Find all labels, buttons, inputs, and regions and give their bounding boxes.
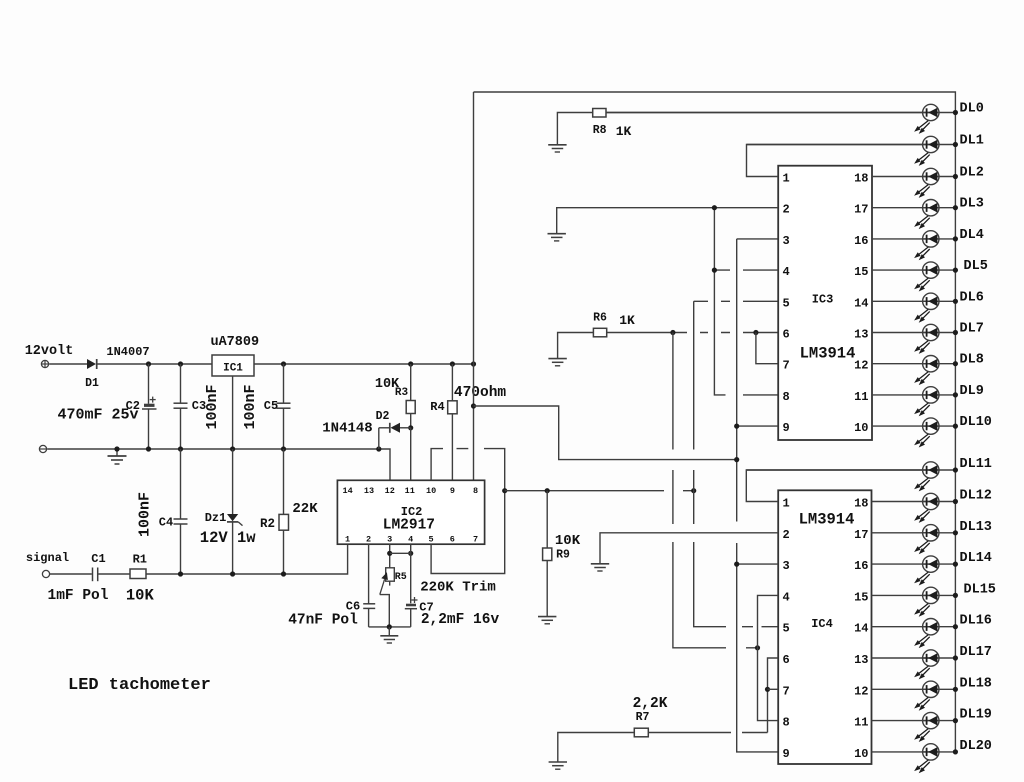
trimmer R5 220K body (386, 568, 395, 581)
capacitor C7 2,2mF 16v (electrolytic) (405, 605, 417, 627)
node DL18 column (953, 687, 958, 692)
LED DL3 (914, 200, 940, 230)
wire IC1 output rail (254, 363, 474, 365)
svg-text:DL7: DL7 (960, 322, 984, 337)
wire DL9 row (872, 394, 955, 396)
wire DL19 row (872, 720, 956, 722)
LED DL20 (914, 744, 940, 774)
node DL14 column (953, 562, 958, 567)
node DL10 column (953, 424, 958, 429)
resistor R8 1K (593, 109, 606, 118)
IC U3 LM3914 body (778, 166, 872, 440)
svg-text:10: 10 (854, 747, 868, 761)
svg-text:DL5: DL5 (964, 259, 988, 274)
LED DL16 (914, 619, 940, 649)
svg-text:DL6: DL6 (960, 290, 984, 305)
svg-text:17: 17 (854, 528, 868, 542)
capacitor C5 100nF (277, 364, 291, 449)
svg-text:470ohm: 470ohm (454, 385, 507, 401)
wire IC4 pin3 stub (737, 563, 779, 565)
node C2 bottom (146, 446, 151, 451)
wire DL15 row (872, 594, 956, 596)
svg-text:47nF Pol: 47nF Pol (288, 613, 358, 629)
resistor R9 10K (543, 491, 552, 617)
trimmer R5 wiper arrow (380, 572, 388, 594)
LED DL10 (914, 418, 940, 448)
svg-text:1: 1 (783, 497, 790, 511)
wire IC2 pin10 to pin5 net (431, 449, 505, 574)
wire R1 to IC2 pin1 (146, 544, 348, 574)
svg-text:22K: 22K (292, 501, 318, 517)
node R6-net to IC4 pins4/8 (755, 645, 760, 650)
node +9V rail junction (471, 361, 476, 366)
svg-text:R9: R9 (556, 549, 570, 562)
svg-text:DL20: DL20 (960, 739, 992, 754)
LED DL0 (914, 104, 940, 134)
svg-text:9: 9 (450, 486, 455, 496)
node IC3 pin6/pin7 link (753, 330, 758, 335)
wire DL17 row (872, 657, 956, 659)
LED DL8 (914, 356, 940, 386)
capacitor C6 47nF Pol (363, 604, 375, 627)
node C5 top (281, 361, 286, 366)
svg-text:220K Trim: 220K Trim (420, 580, 496, 596)
svg-text:3: 3 (783, 559, 790, 573)
node IC1/DZ1 rail (230, 446, 235, 451)
svg-text:DL4: DL4 (960, 228, 984, 243)
ground below IC2 (380, 627, 398, 643)
svg-text:LED tachometer: LED tachometer (68, 676, 211, 695)
svg-text:6: 6 (783, 653, 790, 667)
svg-text:18: 18 (854, 172, 868, 186)
IC U4 LM3914 body (778, 490, 871, 764)
svg-text:R3: R3 (395, 387, 409, 399)
svg-text:R5: R5 (395, 572, 407, 583)
svg-text:2,2K: 2,2K (633, 696, 668, 712)
node DL19 column (953, 718, 958, 723)
wire DL13 row (872, 532, 956, 534)
node DL17 column (953, 655, 958, 660)
node R9 line end on IC3 pin5 net (691, 488, 696, 493)
svg-text:13: 13 (854, 328, 868, 342)
wire R6 to IC3 pin6 (607, 332, 779, 334)
svg-text:12volt: 12volt (25, 344, 74, 359)
svg-text:16: 16 (854, 559, 868, 573)
wire IC4 pins4-8 link (758, 595, 779, 720)
node C4 signal (178, 571, 183, 576)
svg-text:17: 17 (854, 203, 868, 217)
node R9 top (545, 488, 550, 493)
LED DL2 (914, 168, 940, 198)
wire R8 ground branch (557, 113, 592, 145)
ground R6 (548, 359, 566, 366)
node DL0 column (953, 110, 958, 115)
terminal ground input (-) (39, 445, 46, 452)
ground main rail (108, 449, 127, 464)
wire DL12 row (872, 501, 956, 503)
wire DL3 row (872, 207, 955, 209)
svg-text:12: 12 (385, 486, 395, 496)
node DL1 column (953, 142, 958, 147)
node DL5 column (953, 268, 958, 273)
LED DL18 (914, 681, 940, 711)
svg-text:IC4: IC4 (811, 617, 833, 631)
LED DL5 (914, 262, 940, 292)
svg-text:12V 1w: 12V 1w (200, 529, 257, 547)
svg-text:uA7809: uA7809 (210, 335, 259, 350)
ground R8 (548, 145, 566, 152)
node DL13 column (953, 530, 958, 535)
wire DL14 row (872, 563, 956, 565)
svg-text:11: 11 (854, 390, 868, 404)
svg-text:3: 3 (783, 234, 790, 248)
terminal signal input (42, 570, 49, 577)
resistor R3 10K (406, 364, 415, 428)
wire D2 node to IC2 pin11 (410, 428, 412, 481)
node DL11 column (953, 467, 958, 472)
svg-text:DL16: DL16 (960, 614, 992, 629)
wire DL6 row (872, 300, 955, 302)
svg-text:1: 1 (783, 172, 790, 186)
svg-text:DL1: DL1 (960, 134, 984, 149)
wire DL8 row (872, 363, 955, 365)
wire DL5 row (872, 269, 955, 271)
node C3/C4 rail (178, 446, 183, 451)
wire R6 ground branch (558, 333, 594, 359)
wire ground rail (47, 449, 390, 480)
svg-text:IC3: IC3 (812, 293, 834, 307)
node IC3 pin4 bus (712, 268, 717, 273)
svg-text:LM2917: LM2917 (383, 518, 435, 534)
svg-text:DL12: DL12 (960, 489, 992, 504)
svg-text:DL9: DL9 (960, 384, 984, 399)
node 470ohm net end (734, 457, 739, 462)
svg-text:5: 5 (429, 535, 434, 545)
svg-text:9: 9 (783, 747, 790, 761)
svg-text:2: 2 (783, 203, 790, 217)
wire input to D1 anode (49, 363, 87, 365)
ground IC3 pin2 (548, 234, 566, 241)
svg-text:11: 11 (854, 716, 868, 730)
node pin10 net / R9 line (502, 488, 507, 493)
wire DL1 row (747, 144, 956, 146)
node DL16 column (953, 624, 958, 629)
ground R9 (538, 617, 556, 624)
wire R8 to LED DL0 (606, 112, 923, 114)
svg-text:R8: R8 (593, 124, 607, 137)
svg-text:1K: 1K (616, 124, 632, 139)
wire IC2 pin2 to C6 (368, 544, 370, 604)
svg-text:C5: C5 (264, 399, 278, 413)
svg-text:8: 8 (783, 716, 790, 730)
svg-text:1: 1 (345, 535, 350, 545)
svg-text:R4: R4 (430, 400, 444, 414)
LED DL11 (914, 462, 940, 492)
svg-text:D1: D1 (85, 377, 99, 390)
node Dz1 signal (230, 571, 235, 576)
wire top LED supply rail (474, 92, 956, 752)
wire R7 to IC4 pin 6/7 net (648, 732, 767, 734)
svg-text:7: 7 (783, 684, 790, 698)
wire IC4 pin1 hook to DL11 (746, 470, 922, 502)
node R6 net tap (670, 330, 675, 335)
svg-text:DL14: DL14 (960, 551, 992, 566)
node D2 branch (376, 446, 381, 451)
wire DL18 row (872, 688, 956, 690)
node R2 signal (281, 571, 286, 576)
node DL7 column (953, 330, 958, 335)
svg-text:13: 13 (364, 486, 374, 496)
svg-text:2: 2 (783, 528, 790, 542)
wire IC4 pin7 stub (768, 688, 779, 690)
node 470ohm net tap (471, 403, 476, 408)
svg-text:DL0: DL0 (960, 102, 984, 117)
wire IC3 pin1 hook to DL1 (747, 145, 923, 177)
wire IC1 ground pin to rail (232, 376, 234, 449)
svg-text:DL17: DL17 (960, 645, 992, 660)
resistor R1 10K (130, 569, 146, 579)
wire bus IC3-pin5 net vertical (694, 301, 779, 626)
svg-text:DL8: DL8 (960, 353, 984, 368)
svg-text:15: 15 (854, 265, 868, 279)
node pin3/pin4 link west (387, 551, 392, 556)
node C5/R2 rail (281, 446, 286, 451)
wire signal to C1 (50, 573, 92, 575)
LED DL12 (914, 493, 940, 523)
svg-text:IC1: IC1 (223, 363, 243, 375)
node DL12 column (953, 499, 958, 504)
svg-text:100nF: 100nF (137, 492, 154, 537)
node IC4 pin7 link (765, 687, 770, 692)
svg-text:LM3914: LM3914 (799, 511, 855, 529)
svg-text:12: 12 (854, 684, 868, 698)
svg-text:10: 10 (854, 421, 868, 435)
resistor R6 1K (593, 328, 606, 337)
capacitor C1 1mF Pol (93, 568, 98, 582)
wire bus IC3-pin3 net vertical (737, 239, 779, 752)
svg-text:DL2: DL2 (960, 166, 984, 181)
wire R5 wiper to ground rail (380, 595, 390, 627)
svg-text:1N4148: 1N4148 (322, 421, 372, 437)
node R4 top (450, 361, 455, 366)
svg-text:4: 4 (783, 590, 790, 604)
capacitor C4 100nF (174, 449, 188, 574)
svg-text:C4: C4 (159, 516, 173, 530)
svg-text:R6: R6 (593, 312, 607, 325)
node IC3 pin2 bus (712, 205, 717, 210)
diode D1 1N4007 (87, 359, 97, 369)
wire C6-R5-C7 ground rail (369, 626, 411, 628)
node R3/D2/pin11 (408, 425, 413, 430)
terminal 12volt input (+) (41, 360, 48, 367)
node DL4 column (953, 236, 958, 241)
svg-text:C6: C6 (346, 600, 360, 614)
svg-text:13: 13 (854, 653, 868, 667)
svg-text:5: 5 (783, 296, 790, 310)
LED DL1 (914, 136, 940, 166)
svg-text:6: 6 (450, 535, 455, 545)
capacitor C3 100nF (174, 364, 188, 449)
svg-text:C1: C1 (91, 552, 105, 566)
svg-text:Dz1: Dz1 (205, 511, 227, 525)
svg-text:R7: R7 (636, 711, 650, 724)
wire +9V vertical to IC2 pin8 (473, 92, 475, 480)
wire IC2 pin3 down (389, 544, 391, 568)
svg-text:9: 9 (783, 421, 790, 435)
wire DL10 row (872, 425, 955, 427)
wire DL0 row (606, 112, 955, 114)
wire DL2 row (872, 176, 955, 178)
svg-text:R1: R1 (133, 553, 147, 567)
svg-text:100nF: 100nF (242, 384, 259, 429)
node IC3 pin9 bus (734, 424, 739, 429)
svg-text:DL3: DL3 (960, 197, 984, 212)
wire C1 to R1 (98, 573, 130, 575)
ground R7 (549, 762, 567, 769)
wire DL20 row (872, 751, 956, 753)
LED DL4 (914, 231, 940, 261)
wire IC4 pin2 to ground (600, 533, 778, 564)
capacitor C2 470mF 25v (electrolytic) (142, 364, 157, 449)
wire DL16 row (872, 626, 956, 628)
wire pin3-pin4 link (390, 552, 411, 554)
svg-text:3: 3 (387, 535, 392, 545)
op-amp/converter IC2 LM2917 body (337, 480, 484, 544)
svg-text:DL10: DL10 (960, 415, 992, 430)
resistor R4 470ohm (448, 364, 457, 480)
svg-text:18: 18 (854, 497, 868, 511)
wire IC3 pin4 stub (714, 269, 778, 271)
wire IC3 pin6-pin7 link (756, 333, 778, 364)
wire IC2 pin4 to C7 (410, 544, 412, 603)
svg-text:DL11: DL11 (960, 457, 992, 472)
svg-text:DL15: DL15 (964, 582, 996, 597)
svg-text:10K: 10K (126, 587, 155, 605)
svg-text:16: 16 (854, 234, 868, 248)
LED DL14 (914, 556, 940, 586)
svg-text:14: 14 (854, 622, 868, 636)
svg-text:14: 14 (342, 486, 352, 496)
node DL6 column (953, 299, 958, 304)
svg-text:DL13: DL13 (960, 520, 992, 535)
svg-text:4: 4 (783, 265, 790, 279)
wire D1 cathode to IC1 input (97, 363, 212, 365)
svg-text:1K: 1K (619, 313, 635, 328)
diode D2 1N4148 (379, 423, 411, 449)
svg-text:11: 11 (405, 486, 415, 496)
node ground rail below IC2 (387, 624, 392, 629)
svg-text:7: 7 (783, 359, 790, 373)
svg-text:470mF 25v: 470mF 25v (57, 407, 138, 424)
svg-text:10K: 10K (555, 533, 581, 549)
wire IC3 pin2 to ground (557, 208, 779, 234)
svg-text:LM3914: LM3914 (800, 345, 856, 363)
svg-text:1mF Pol: 1mF Pol (48, 588, 109, 604)
LED DL6 (914, 293, 940, 323)
node C2 top (146, 361, 151, 366)
wire IC4 pin6-pin7-R7 link (768, 658, 779, 733)
svg-text:D2: D2 (376, 410, 390, 423)
wire DL4 row (872, 238, 955, 240)
node DL2 column (953, 174, 958, 179)
wire DL11 row (746, 469, 955, 471)
svg-text:4: 4 (408, 535, 413, 545)
node R3 top (408, 361, 413, 366)
svg-text:10: 10 (426, 486, 436, 496)
node DL3 column (953, 205, 958, 210)
wire R9 line (pin5/10 net east) (505, 490, 694, 492)
svg-text:signal: signal (26, 551, 69, 565)
wire IC3 pin9 stub (737, 425, 779, 427)
svg-text:100nF: 100nF (204, 384, 221, 429)
regulator IC1 uA7809 (212, 355, 254, 376)
node DL8 column (953, 361, 958, 366)
LED DL15 (914, 587, 940, 617)
wire DL7 row (872, 332, 955, 334)
svg-text:DL19: DL19 (960, 708, 992, 723)
svg-text:12: 12 (854, 359, 868, 373)
LED DL7 (914, 324, 940, 354)
LED DL17 (914, 650, 940, 680)
resistor R7 2,2K (634, 728, 648, 737)
svg-text:DL18: DL18 (960, 676, 992, 691)
label C2 plus (150, 397, 156, 403)
LED DL19 (914, 712, 940, 742)
LED DL13 (914, 525, 940, 555)
zener diode Dz1 12V 1w (227, 449, 243, 574)
node ground stem (114, 446, 119, 451)
svg-text:8: 8 (783, 390, 790, 404)
svg-text:R2: R2 (260, 517, 275, 531)
svg-text:14: 14 (854, 296, 868, 310)
node DL15 column (953, 593, 958, 598)
svg-text:8: 8 (473, 486, 478, 496)
wire bus R6-net vertical (673, 333, 758, 648)
resistor R2 22K (279, 449, 289, 574)
node pin3/pin4 link east (408, 551, 413, 556)
svg-text:15: 15 (854, 590, 868, 604)
svg-text:1N4007: 1N4007 (106, 345, 149, 359)
svg-text:7: 7 (473, 535, 478, 545)
label C7 plus (412, 597, 418, 603)
svg-text:5: 5 (783, 622, 790, 636)
ground IC4 pin2 (591, 564, 609, 571)
node DL20 column (953, 749, 958, 754)
svg-text:6: 6 (783, 328, 790, 342)
node IC4 pin3 bus (734, 562, 739, 567)
wire R7 ground branch (558, 733, 635, 763)
LED DL9 (914, 387, 940, 417)
svg-text:2,2mF 16v: 2,2mF 16v (421, 612, 500, 628)
svg-text:2: 2 (366, 535, 371, 545)
node C3 top (178, 361, 183, 366)
node DL9 column (953, 392, 958, 397)
wire 470ohm net to IC bank (474, 406, 737, 460)
wire bus IC3 pin2-4-8 vertical (714, 208, 778, 395)
